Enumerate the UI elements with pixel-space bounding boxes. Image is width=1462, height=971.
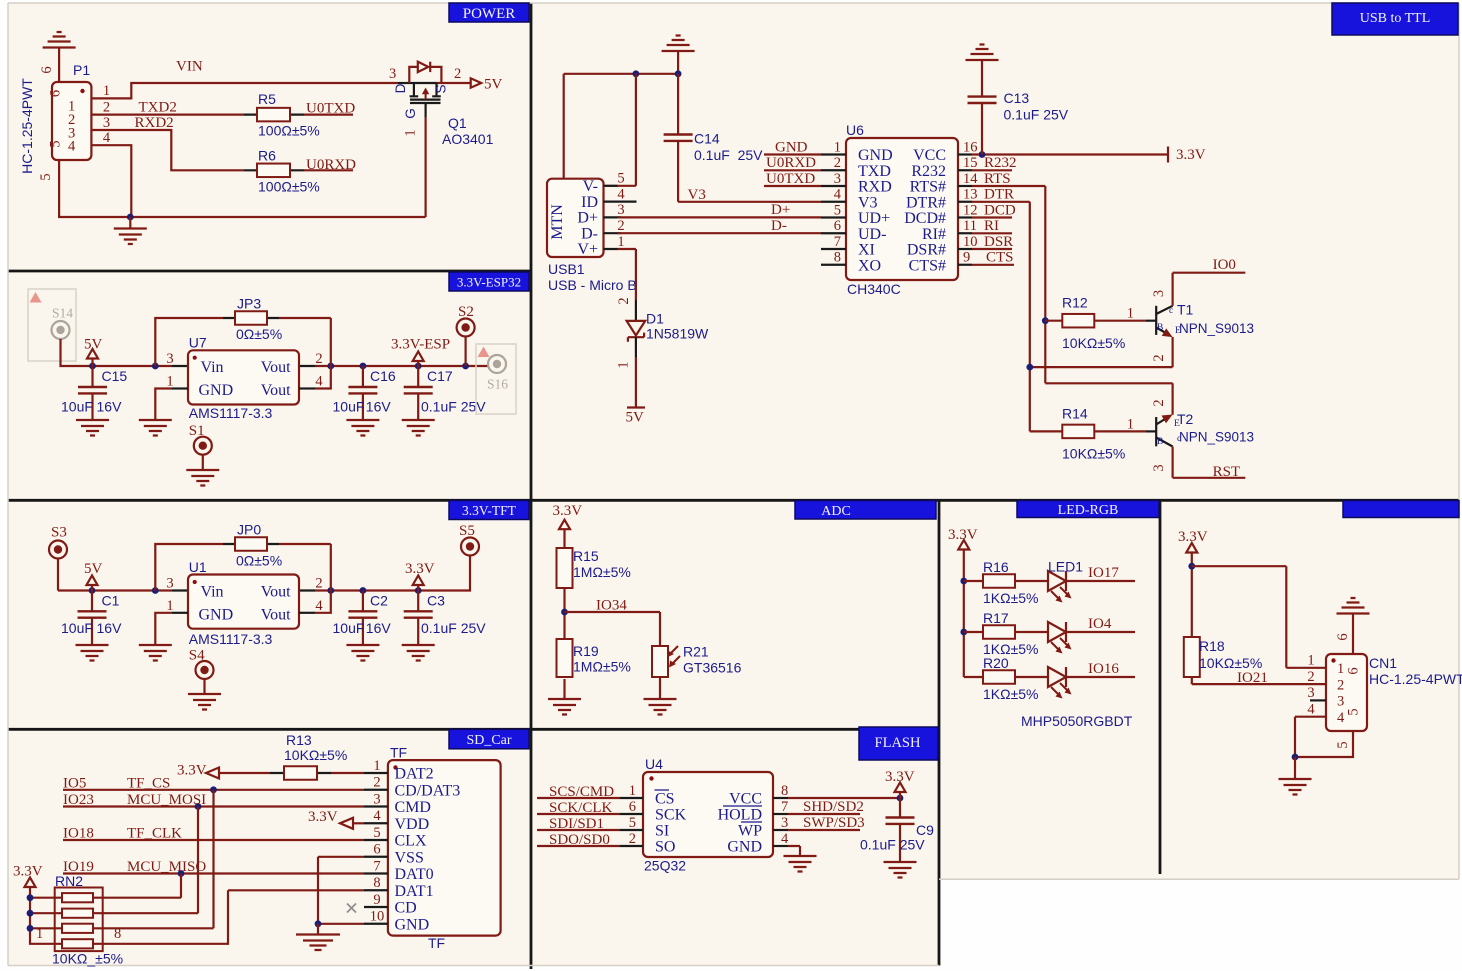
svg-text:R18: R18 [1199,638,1225,654]
svg-text:8: 8 [781,783,788,799]
svg-text:JP0: JP0 [237,522,261,538]
svg-text:TF_CLK: TF_CLK [127,826,182,842]
svg-text:SHD/SD2: SHD/SD2 [803,799,864,815]
svg-text:3.3V: 3.3V [177,763,207,779]
svg-text:MCU_MOSI: MCU_MOSI [127,792,206,808]
svg-text:0Ω±5%: 0Ω±5% [236,326,282,342]
svg-text:1: 1 [166,374,173,390]
svg-text:MCU_MISO: MCU_MISO [127,859,206,875]
svg-text:16V: 16V [97,620,123,636]
svg-text:U6: U6 [846,122,864,138]
svg-text:MTN: MTN [549,204,566,240]
svg-text:XO: XO [858,257,881,274]
svg-text:1: 1 [403,129,419,136]
svg-text:2: 2 [834,155,841,171]
svg-text:DCD: DCD [984,202,1016,218]
svg-text:1: 1 [617,234,624,250]
svg-text:CH340C: CH340C [847,281,901,297]
svg-text:R232: R232 [984,155,1017,171]
svg-text:LED1: LED1 [1048,559,1083,575]
svg-text:7: 7 [373,858,380,874]
svg-text:3: 3 [1151,290,1167,297]
svg-text:RI#: RI# [922,226,946,243]
svg-text:VDD: VDD [395,816,430,833]
svg-text:6: 6 [48,90,64,97]
svg-text:C15: C15 [102,368,128,384]
svg-text:3: 3 [166,351,173,367]
svg-text:7: 7 [781,799,788,815]
svg-text:4: 4 [68,139,76,155]
svg-text:Vout: Vout [261,359,291,376]
svg-text:T1: T1 [1177,302,1194,318]
svg-text:V-: V- [583,178,598,195]
svg-text:1MΩ±5%: 1MΩ±5% [573,659,631,675]
svg-text:RTS: RTS [984,171,1011,187]
svg-text:U7: U7 [189,335,207,351]
svg-text:RXD: RXD [858,179,892,196]
svg-text:ADC: ADC [821,504,851,519]
svg-text:AO3401: AO3401 [442,131,494,147]
svg-text:2: 2 [1307,669,1314,685]
svg-text:10KΩ±5%: 10KΩ±5% [1199,655,1262,671]
svg-text:CLX: CLX [395,833,427,850]
svg-text:RXD2: RXD2 [135,115,174,131]
svg-text:D-: D- [771,218,787,234]
svg-text:1: 1 [166,598,173,614]
svg-text:V+: V+ [577,241,598,258]
svg-text:ID: ID [581,194,598,211]
svg-text:0.1uF 25V: 0.1uF 25V [694,147,763,163]
svg-text:B: B [1157,323,1163,333]
svg-text:6: 6 [39,66,55,73]
svg-text:15: 15 [963,155,978,171]
svg-text:R13: R13 [286,732,312,748]
svg-text:SDI/SD1: SDI/SD1 [549,816,604,832]
svg-text:VCC: VCC [913,147,946,164]
svg-text:R17: R17 [983,610,1009,626]
svg-text:R20: R20 [983,655,1009,671]
svg-text:0Ω±5%: 0Ω±5% [236,553,282,569]
svg-text:6: 6 [1335,633,1351,640]
svg-text:1: 1 [103,83,110,99]
svg-text:USB to TTL: USB to TTL [1360,11,1431,26]
svg-text:U0RXD: U0RXD [766,155,816,171]
svg-text:RI: RI [984,218,999,234]
svg-text:3.3V: 3.3V [1176,147,1206,163]
svg-text:13: 13 [963,187,978,203]
svg-text:3: 3 [617,202,624,218]
svg-text:SO: SO [655,839,675,856]
svg-text:c: c [1169,306,1173,316]
svg-text:C2: C2 [370,593,388,609]
svg-text:16V: 16V [366,620,392,636]
svg-text:CMD: CMD [395,799,431,816]
svg-text:9: 9 [373,892,380,908]
svg-text:D: D [393,83,408,93]
svg-text:2: 2 [1151,399,1167,406]
svg-text:CD/DAT3: CD/DAT3 [395,782,461,799]
svg-text:7: 7 [834,234,841,250]
svg-text:1: 1 [1127,306,1134,322]
svg-text:4: 4 [617,186,625,202]
svg-text:TF_CS: TF_CS [127,776,170,792]
svg-text:4: 4 [1337,710,1345,726]
svg-text:USB - Micro B: USB - Micro B [548,277,637,293]
svg-text:UD-: UD- [858,226,886,243]
svg-text:4: 4 [1307,702,1315,718]
svg-text:6: 6 [373,842,380,858]
svg-text:12: 12 [963,202,978,218]
svg-text:R12: R12 [1062,295,1088,311]
svg-text:U0TXD: U0TXD [306,101,355,117]
svg-text:3: 3 [166,576,173,592]
svg-text:R6: R6 [258,148,276,164]
svg-text:2: 2 [616,297,632,304]
svg-text:3.3V: 3.3V [405,561,435,577]
svg-text:5V: 5V [84,561,103,577]
svg-text:1: 1 [1127,417,1134,433]
svg-text:D+: D+ [577,210,598,227]
svg-text:0.1uF 25V: 0.1uF 25V [1004,107,1069,123]
svg-text:GND: GND [858,147,893,164]
svg-text:3.3V: 3.3V [13,864,43,880]
svg-text:1: 1 [36,926,43,942]
svg-text:CTS#: CTS# [909,257,946,274]
svg-text:NPN_S9013: NPN_S9013 [1179,430,1254,445]
svg-text:UD+: UD+ [858,210,890,227]
svg-text:HC-1.25-4PWT: HC-1.25-4PWT [19,78,35,174]
svg-text:VCC: VCC [729,791,762,808]
svg-text:8: 8 [834,250,841,266]
svg-text:10uF: 10uF [61,620,93,636]
svg-text:IO16: IO16 [1088,661,1119,677]
svg-text:1: 1 [834,139,841,155]
svg-text:1MΩ±5%: 1MΩ±5% [573,564,631,580]
svg-text:NPN_S9013: NPN_S9013 [1179,321,1254,336]
svg-text:3.3V-ESP32: 3.3V-ESP32 [457,275,521,290]
svg-text:IO17: IO17 [1088,565,1119,581]
svg-text:2: 2 [1151,354,1167,361]
svg-text:5V: 5V [626,410,645,426]
svg-text:3: 3 [1151,464,1167,471]
svg-text:B: B [1157,437,1163,447]
svg-text:TF: TF [390,745,407,761]
svg-text:10uF: 10uF [333,399,365,415]
svg-text:TXD2: TXD2 [139,100,177,116]
svg-text:CD: CD [395,900,417,917]
svg-text:IO4: IO4 [1088,616,1112,632]
svg-text:5: 5 [1346,708,1362,715]
svg-text:DSR: DSR [984,234,1013,250]
svg-text:Vout: Vout [261,382,291,399]
svg-text:10KΩ_±5%: 10KΩ_±5% [52,951,123,967]
svg-text:IO23: IO23 [63,792,94,808]
svg-text:4: 4 [103,130,111,146]
svg-text:GT36516: GT36516 [683,660,742,676]
svg-text:HC-1.25-4PWT: HC-1.25-4PWT [1369,671,1462,687]
svg-text:C13: C13 [1004,90,1030,106]
svg-text:C17: C17 [427,368,453,384]
svg-text:5: 5 [48,140,64,147]
svg-text:3: 3 [781,815,788,831]
svg-text:C3: C3 [427,593,445,609]
svg-text:SCK/CLK: SCK/CLK [549,800,613,816]
svg-text:AMS1117-3.3: AMS1117-3.3 [189,405,273,421]
svg-text:U0RXD: U0RXD [306,157,356,173]
svg-text:DAT1: DAT1 [395,883,434,900]
svg-text:TF: TF [428,935,445,951]
svg-text:2: 2 [373,775,380,791]
svg-text:25Q32: 25Q32 [644,858,686,874]
svg-text:14: 14 [963,171,978,187]
svg-text:Vout: Vout [261,607,291,624]
svg-text:10uF: 10uF [61,399,93,415]
svg-text:POWER: POWER [463,6,516,22]
svg-text:S16: S16 [487,377,508,392]
svg-text:R21: R21 [683,644,709,660]
svg-text:1KΩ±5%: 1KΩ±5% [983,590,1039,606]
svg-text:TXD: TXD [858,163,891,180]
svg-text:D+: D+ [771,202,790,218]
svg-text:10KΩ±5%: 10KΩ±5% [1062,446,1125,462]
svg-text:IO5: IO5 [63,776,86,792]
svg-text:2: 2 [315,576,322,592]
svg-text:GND: GND [775,139,808,155]
svg-text:IO0: IO0 [1213,257,1236,273]
svg-text:1: 1 [373,758,380,774]
svg-text:6: 6 [834,218,841,234]
svg-text:100Ω±5%: 100Ω±5% [258,123,320,139]
svg-text:DCD#: DCD# [904,210,946,227]
svg-text:3.3V: 3.3V [1178,529,1208,545]
svg-text:100Ω±5%: 100Ω±5% [258,179,320,195]
svg-text:1: 1 [1307,653,1314,669]
svg-text:2: 2 [315,351,322,367]
svg-text:DAT2: DAT2 [395,766,434,783]
svg-text:R15: R15 [573,548,599,564]
svg-text:V3: V3 [688,187,706,203]
svg-text:V3: V3 [858,194,878,211]
svg-text:U0TXD: U0TXD [766,171,815,187]
svg-text:SI: SI [655,823,669,840]
svg-text:S5: S5 [459,523,475,539]
svg-text:AMS1117-3.3: AMS1117-3.3 [189,631,273,647]
svg-text:10KΩ±5%: 10KΩ±5% [1062,335,1125,351]
svg-text:S: S [434,84,449,93]
svg-text:RTS#: RTS# [910,179,946,196]
svg-text:USB1: USB1 [548,261,585,277]
svg-text:5: 5 [38,173,54,180]
svg-text:DTR#: DTR# [906,194,946,211]
svg-text:9: 9 [963,250,970,266]
svg-text:3: 3 [1307,685,1314,701]
svg-text:1: 1 [616,361,632,368]
svg-text:2: 2 [454,66,461,82]
svg-text:GND: GND [199,607,234,624]
svg-text:LED-RGB: LED-RGB [1058,503,1119,518]
svg-text:1N5819W: 1N5819W [646,326,709,342]
svg-text:D-: D- [581,225,598,242]
svg-text:IO18: IO18 [63,826,94,842]
svg-text:3: 3 [103,115,110,131]
svg-text:8: 8 [114,926,121,942]
svg-text:R5: R5 [258,91,276,107]
svg-text:R19: R19 [573,643,599,659]
svg-text:GND: GND [727,839,762,856]
svg-text:SWP/SD3: SWP/SD3 [803,815,865,831]
svg-text:1: 1 [1337,661,1344,677]
svg-text:2: 2 [103,99,110,115]
svg-text:D1: D1 [646,311,664,327]
svg-text:Vin: Vin [201,584,224,601]
svg-text:8: 8 [373,875,380,891]
svg-text:IO21: IO21 [1237,670,1268,686]
svg-text:10: 10 [370,909,385,925]
svg-text:C14: C14 [694,131,720,147]
svg-text:4: 4 [781,831,789,847]
svg-text:U4: U4 [645,756,663,772]
svg-text:4: 4 [834,187,842,203]
svg-text:6: 6 [629,799,636,815]
svg-text:3.3V-TFT: 3.3V-TFT [462,503,517,518]
svg-text:Q1: Q1 [448,115,467,131]
svg-text:3: 3 [373,791,380,807]
svg-text:4: 4 [315,374,323,390]
svg-text:2: 2 [1337,677,1344,693]
svg-text:10KΩ±5%: 10KΩ±5% [284,747,347,763]
svg-text:3.3V: 3.3V [553,503,583,519]
svg-text:RN2: RN2 [55,873,83,889]
svg-text:S14: S14 [52,306,73,321]
svg-text:4: 4 [315,598,323,614]
svg-text:5: 5 [1335,741,1351,748]
svg-text:Vin: Vin [201,359,224,376]
svg-text:5: 5 [834,202,841,218]
svg-text:0.1uF 25V: 0.1uF 25V [860,837,925,853]
svg-text:SCS/CMD: SCS/CMD [549,784,614,800]
svg-text:5V: 5V [484,77,503,93]
svg-text:S3: S3 [51,525,67,541]
svg-text:3.3V: 3.3V [308,809,338,825]
svg-text:5: 5 [373,825,380,841]
svg-text:GND: GND [395,916,430,933]
svg-text:10uF: 10uF [333,620,365,636]
svg-text:FLASH: FLASH [875,735,921,751]
svg-text:HOLD: HOLD [718,807,762,824]
svg-text:SD_Car: SD_Car [466,733,511,748]
svg-text:C1: C1 [102,593,120,609]
svg-text:10: 10 [963,234,978,250]
svg-text:5: 5 [629,815,636,831]
svg-text:1: 1 [629,783,636,799]
svg-text:CS: CS [655,791,675,808]
svg-text:3.3V-ESP: 3.3V-ESP [391,337,450,353]
svg-text:C16: C16 [370,368,396,384]
svg-text:0.1uF 25V: 0.1uF 25V [421,620,486,636]
svg-text:16: 16 [963,139,978,155]
svg-text:2: 2 [617,218,624,234]
svg-text:RST: RST [1213,464,1241,480]
svg-text:R232: R232 [911,163,946,180]
svg-text:DTR: DTR [984,187,1014,203]
svg-text:3: 3 [834,171,841,187]
svg-text:VIN: VIN [176,59,203,75]
svg-text:VSS: VSS [395,849,424,866]
svg-text:SDO/SD0: SDO/SD0 [549,832,610,848]
svg-text:6: 6 [1346,667,1362,674]
svg-text:XI: XI [858,242,875,259]
svg-text:1KΩ±5%: 1KΩ±5% [983,686,1039,702]
svg-text:R14: R14 [1062,406,1088,422]
svg-text:16V: 16V [366,399,392,415]
svg-text:WP: WP [738,823,762,840]
svg-text:CTS: CTS [986,250,1014,266]
svg-text:4: 4 [373,808,381,824]
svg-text:MHP5050RGBDT: MHP5050RGBDT [1021,713,1133,729]
svg-text:U1: U1 [189,559,207,575]
svg-text:P1: P1 [73,62,90,78]
svg-text:SCK: SCK [655,807,687,824]
svg-text:DSR#: DSR# [907,242,946,259]
svg-text:2: 2 [629,831,636,847]
svg-text:DAT0: DAT0 [395,866,434,883]
svg-text:5: 5 [617,171,624,187]
svg-text:Vout: Vout [261,584,291,601]
svg-text:CN1: CN1 [1369,655,1397,671]
svg-text:G: G [403,108,418,119]
svg-text:JP3: JP3 [237,296,261,312]
svg-text:3: 3 [389,66,396,82]
svg-text:T2: T2 [1177,411,1194,427]
svg-text:R16: R16 [983,559,1009,575]
svg-text:GND: GND [199,382,234,399]
svg-text:16V: 16V [97,399,123,415]
svg-text:11: 11 [963,218,977,234]
svg-text:3: 3 [1337,694,1344,710]
